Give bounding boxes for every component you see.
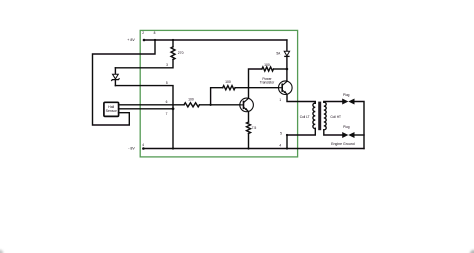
- svg-text:- 8V: - 8V: [128, 147, 135, 151]
- svg-text:Sensor: Sensor: [106, 109, 118, 113]
- svg-text:2: 2: [142, 31, 144, 35]
- svg-text:Engine Ground: Engine Ground: [331, 142, 355, 146]
- svg-text:Coil HT: Coil HT: [330, 115, 341, 119]
- svg-text:7.5: 7.5: [252, 126, 257, 130]
- svg-text:5: 5: [280, 132, 282, 136]
- svg-text:100: 100: [264, 63, 270, 67]
- svg-text:4: 4: [279, 144, 281, 148]
- svg-text:4: 4: [142, 143, 144, 147]
- svg-text:8: 8: [154, 31, 156, 35]
- svg-text:1: 1: [279, 98, 281, 102]
- svg-text:Plug: Plug: [343, 125, 350, 129]
- svg-text:Transistor: Transistor: [260, 80, 275, 84]
- svg-text:5: 5: [166, 81, 168, 85]
- svg-text:Coil LT: Coil LT: [300, 115, 310, 119]
- svg-text:100: 100: [188, 98, 194, 102]
- svg-text:6: 6: [166, 100, 168, 104]
- svg-text:7: 7: [166, 112, 168, 116]
- svg-text:100: 100: [225, 80, 231, 84]
- svg-text:Plug: Plug: [343, 93, 350, 97]
- svg-text:+ 8V: + 8V: [127, 38, 135, 42]
- svg-text:270: 270: [178, 51, 184, 55]
- svg-text:3: 3: [166, 63, 168, 67]
